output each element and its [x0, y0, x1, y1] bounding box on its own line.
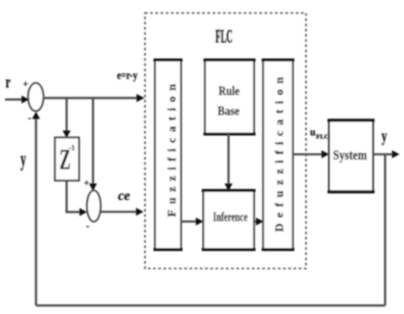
wire drop to summer 2 — [92, 98, 94, 184]
block Inference — [203, 191, 254, 250]
wire Rule Base to Inference — [227, 134, 229, 184]
svg-text:Rule: Rule — [219, 83, 240, 98]
svg-text:e=r-y: e=r-y — [117, 68, 138, 82]
wire Inference to Defuzzification — [254, 220, 257, 222]
block Defuzzification — [263, 60, 293, 250]
svg-text:+: + — [23, 79, 28, 89]
wire e main line — [44, 97, 138, 99]
wire drop to Z-1 — [65, 98, 67, 131]
node e arrowhead into FLC — [137, 94, 145, 102]
wire Z-1 output to summer 2 — [67, 181, 80, 213]
svg-text:ce: ce — [118, 189, 130, 204]
svg-text:-: - — [86, 221, 89, 232]
svg-text:-: - — [28, 113, 31, 124]
wire ce line — [101, 211, 136, 213]
block System — [329, 120, 373, 192]
node arrowhead into Z-1 — [63, 131, 71, 139]
wire System output — [373, 153, 393, 155]
node arrowhead into Inference top — [225, 184, 233, 192]
svg-text:r: r — [6, 73, 11, 92]
svg-text:y: y — [21, 146, 27, 171]
delay block Z-1 — [55, 138, 79, 181]
block Fuzzification — [155, 60, 181, 250]
node arrowhead into System — [322, 150, 330, 158]
svg-text:+: + — [84, 178, 89, 188]
svg-text:FLC: FLC — [316, 134, 329, 141]
wire Defuzzification to System — [293, 153, 322, 155]
wire feedback down right — [384, 154, 386, 305]
svg-text:y: y — [382, 127, 388, 146]
node arrowhead into Inference left — [196, 218, 204, 226]
node arrowhead into summer 2 left — [80, 208, 88, 216]
node r arrowhead — [22, 96, 30, 104]
wire feedback up left — [35, 118, 37, 306]
node arrowhead into Defuzzification left — [256, 218, 263, 226]
node arrowhead into summer 1 bottom — [32, 112, 40, 120]
wire r input — [5, 98, 23, 100]
svg-text:FLC: FLC — [216, 27, 233, 48]
svg-text:Inference: Inference — [213, 209, 248, 224]
node arrowhead into summer 2 top — [89, 184, 97, 192]
summing junction S2 — [87, 191, 101, 222]
wire feedback bottom — [36, 304, 385, 306]
svg-text:-1: -1 — [69, 144, 75, 152]
wire Fuzzification to Inference — [181, 220, 197, 222]
node ce arrowhead into FLC — [136, 208, 144, 216]
svg-text:System: System — [333, 149, 367, 164]
node output arrowhead — [392, 150, 400, 158]
block Rule Base — [205, 60, 254, 134]
svg-text:Base: Base — [218, 103, 240, 118]
summing junction S1 — [28, 83, 43, 111]
FLC dashed container — [145, 13, 306, 269]
